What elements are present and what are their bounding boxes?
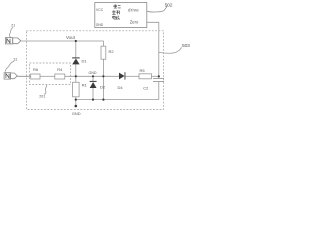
wire Zero pin down	[147, 22, 159, 78]
junction node mid rail D2	[92, 75, 94, 77]
resistor R2	[101, 46, 106, 59]
svg-text:D1: D1	[82, 58, 88, 63]
svg-text:201: 201	[39, 95, 45, 99]
connector P2 box	[4, 73, 11, 79]
label N in P2	[6, 74, 9, 78]
ground terminal dot	[75, 105, 78, 108]
svg-text:Zero: Zero	[130, 19, 139, 24]
wire P2 to R6	[17, 75, 31, 77]
junction node mid rail D1	[75, 75, 77, 77]
svg-text:D4: D4	[118, 85, 124, 90]
wire C2 to bottom rail	[158, 82, 160, 100]
wire D1 to mid rail	[75, 64, 77, 82]
resistor R4	[55, 74, 65, 79]
connector P1 box	[5, 38, 12, 44]
wire R2 bottom lead to GND rails	[102, 59, 104, 99]
svg-text:502: 502	[165, 2, 173, 8]
control box title 电路 (drawn strokes)	[113, 16, 116, 20]
junction node bottom rail R2	[102, 99, 104, 101]
capacitor C2 bottom plate	[153, 81, 164, 83]
wire mid GND rail	[17, 75, 31, 77]
connector P1 plug	[13, 38, 21, 44]
wire mid rail center	[65, 75, 119, 77]
junction node bottom rail R1	[75, 99, 77, 101]
junction node R5 zero wire	[158, 75, 160, 77]
svg-text:R2: R2	[109, 49, 115, 54]
control box title 第二 (drawn strokes)	[112, 4, 121, 19]
junction node Vout	[75, 40, 77, 42]
resistor R5	[139, 74, 152, 79]
junction node bottom rail D2	[92, 99, 94, 101]
diode D4	[119, 73, 125, 80]
wire D2 leads	[92, 76, 94, 81]
svg-text:GND: GND	[89, 71, 97, 75]
svg-text:Vout: Vout	[66, 35, 76, 40]
wire drive pin leader to 502	[147, 6, 167, 12]
wire Vout rail	[21, 41, 104, 46]
main dashed box	[27, 31, 164, 110]
svg-text:R6: R6	[33, 67, 39, 72]
svg-text:R1: R1	[82, 82, 88, 87]
wire mid rail right of D4	[125, 75, 139, 77]
leader 503	[159, 47, 182, 53]
connector P2 plug	[11, 73, 18, 79]
control box title 控制 (drawn strokes)	[112, 10, 115, 14]
junction node mid rail R2	[102, 75, 104, 77]
sub-circuit dashed box 201	[30, 63, 71, 85]
leader 31 lower connector	[5, 61, 14, 72]
svg-text:D2: D2	[100, 84, 106, 89]
wire R5 to zero line	[152, 75, 159, 77]
resistor R1	[73, 82, 80, 97]
svg-text:GND: GND	[72, 111, 81, 116]
control box U1	[95, 3, 147, 28]
wire column D1 R1: Vout to D1	[75, 41, 77, 58]
svg-text:GND: GND	[96, 23, 104, 27]
diode D1	[72, 59, 79, 65]
label N in P1	[7, 39, 10, 43]
wire R1 to bottom rail	[75, 97, 77, 100]
svg-text:C2: C2	[143, 85, 149, 90]
leader 201 sub box	[44, 85, 47, 95]
leader 21 upper connector	[9, 27, 13, 37]
svg-text:R4: R4	[57, 67, 63, 72]
capacitor C2 top plate	[153, 78, 164, 80]
svg-text:drive: drive	[128, 7, 139, 12]
svg-text:R5: R5	[140, 68, 146, 73]
svg-text:503: 503	[182, 43, 190, 49]
resistor R6	[31, 74, 40, 79]
wire bottom GND rail	[76, 99, 159, 101]
wire between R6 and R4	[40, 75, 55, 77]
svg-text:21: 21	[11, 24, 15, 28]
svg-text:31: 31	[13, 58, 17, 62]
diode D2	[90, 82, 97, 88]
wire GND stub	[75, 100, 77, 106]
svg-text:VCC: VCC	[96, 8, 104, 12]
